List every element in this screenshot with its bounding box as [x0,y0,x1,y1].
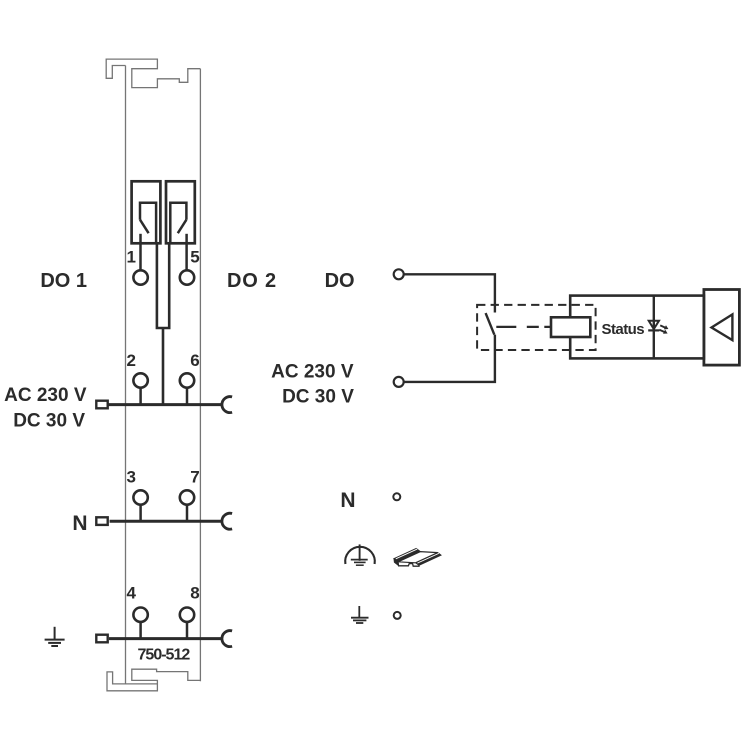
svg-text:1: 1 [127,248,136,267]
mechanical link (dash-dot) [496,326,551,328]
svg-text:3: 3 [127,468,136,487]
svg-text:7: 7 [190,468,199,487]
contact circle 2 [133,373,147,387]
cage clamp channel 1 [140,203,156,244]
noiseless earth (dome) symbol [345,544,375,565]
relay contact blade [486,313,495,335]
wire clamp2 to contact circle 5 [185,234,188,270]
contact circle 1 [133,270,147,284]
terminal circle AC/DC (field side) [394,377,404,387]
N bus jumper contact arc [222,513,232,529]
module top DIN-rail profile [106,59,200,88]
svg-text:5: 5 [190,248,199,267]
stub contact 2 to AC bus [139,388,142,405]
earth symbol (middle) [351,606,369,623]
status LED [648,321,668,334]
driver triangle [712,314,733,340]
terminal circle earth (field side) [394,612,401,619]
status box divider [653,296,655,359]
earth bus jumper contact arc [222,631,232,647]
contact circle 8 [180,608,194,622]
stub contact 3 to N bus [139,505,142,522]
module bottom DIN-rail profile [107,669,200,691]
AC/DC supply bus [109,403,222,406]
status electronics box [570,296,704,359]
svg-text:DC 30 V: DC 30 V [13,410,85,431]
contact circle 4 [133,608,147,622]
svg-text:AC 230 V: AC 230 V [4,385,87,406]
relay dashed enclosure [477,305,595,350]
terminal circle DO (field side) [394,269,404,279]
clamp spring channel 2 [178,220,187,234]
AC bus field terminal square [96,401,107,409]
contact circle 5 [180,270,194,284]
earth bus field terminal square [96,635,107,643]
N bus field terminal square [96,517,107,525]
svg-text:4: 4 [127,584,137,603]
module outline left edge [125,66,127,684]
stub contact 6 to AC bus [186,388,189,405]
contact circle 3 [133,490,147,504]
svg-text:N: N [340,489,355,512]
module outline right edge [199,69,201,682]
earth bus [109,637,222,640]
relay coil [551,317,590,337]
svg-text:AC 230 V: AC 230 V [271,362,354,383]
contact circle 6 [180,373,194,387]
bus driver box [704,290,740,366]
svg-text:DO 2: DO 2 [227,270,277,292]
earth symbol (left) [45,627,65,646]
svg-text:DO 1: DO 1 [40,270,87,292]
svg-text:8: 8 [190,584,199,603]
cage clamp channel 2 [170,203,186,244]
wire relay contact to AC terminal [404,335,495,382]
stub contact 7 to N bus [186,505,189,522]
terminal block channel 2 (contact 5) [166,181,195,243]
contact circle 7 [180,490,194,504]
AC bus jumper contact arc [222,397,232,413]
svg-text:2: 2 [127,351,136,370]
DIN rail 3D icon [394,548,441,566]
svg-text:Status: Status [602,321,645,338]
svg-text:DC 30 V: DC 30 V [282,386,354,407]
stub contact 4 to earth bus [139,622,142,639]
wire clamp1 to contact circle 1 [139,234,142,270]
svg-text:DO: DO [325,270,355,292]
wire actuator to AC bus [162,328,165,405]
N bus [110,520,222,523]
relay actuator bar [157,243,169,329]
wire DO terminal to relay contact [404,274,495,312]
clamp spring channel 1 [140,220,149,234]
terminal circle N (field side) [393,493,400,500]
svg-text:N: N [72,512,87,535]
svg-text:6: 6 [190,351,199,370]
stub contact 8 to earth bus [186,622,189,639]
svg-text:750-512: 750-512 [138,647,191,664]
terminal block channel 1 (contact 1) [132,181,161,243]
